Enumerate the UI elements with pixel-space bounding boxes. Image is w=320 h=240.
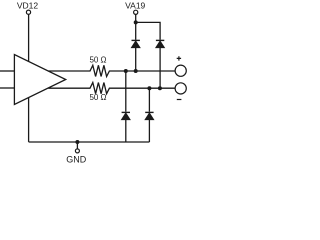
junction dot bottom wire / D4 [147, 86, 151, 90]
op-amp U1 [14, 55, 65, 105]
wire VD12 supply stem [28, 15, 30, 62]
wire amp ground stem [28, 97, 30, 141]
svg-text:GND: GND [66, 154, 87, 164]
diode D3 triangle [121, 113, 130, 120]
output terminal circle plus [175, 65, 186, 76]
wire bottom output with resistor R2 zigzag [48, 83, 175, 94]
wire diode D4 branch [148, 88, 150, 112]
svg-text:VD12: VD12 [17, 0, 39, 10]
terminal circle VD12 [26, 10, 30, 14]
minus sign [177, 99, 182, 101]
wire input top [0, 70, 14, 72]
wire GND rail [29, 141, 150, 143]
wire VA19 rail [136, 22, 160, 39]
wire diode D3 branch [125, 71, 127, 112]
junction dot top wire / D1 [134, 69, 138, 73]
terminal circle GND [75, 149, 79, 153]
diode D2 cathode bar [156, 39, 164, 41]
diode D4 cathode bar [145, 111, 153, 113]
wire input bottom [0, 87, 14, 89]
diode D3 cathode bar [122, 111, 130, 113]
diode D4 triangle [145, 113, 154, 120]
terminal circle VA19 [134, 10, 138, 14]
svg-text:50 Ω: 50 Ω [89, 93, 106, 102]
wire VA19 stem [135, 15, 137, 40]
svg-text:50 Ω: 50 Ω [89, 56, 106, 65]
wire diode D2 lead [159, 48, 161, 89]
wire top output with resistor R1 zigzag [48, 65, 175, 76]
wire diode D3 lead [125, 120, 127, 142]
diode D1 cathode bar [132, 39, 140, 41]
wire diode D1 lead [135, 48, 137, 71]
wire GND terminal stem [76, 142, 78, 149]
junction dot VA19 rail [134, 20, 138, 24]
output terminal circle minus [175, 83, 186, 94]
diode D2 triangle [156, 41, 165, 48]
junction dot GND rail [75, 140, 79, 144]
svg-text:VA19: VA19 [125, 1, 145, 11]
junction dot top wire / D3 [124, 69, 128, 73]
wire diode D4 lead [148, 120, 150, 142]
plus sign [177, 56, 181, 60]
junction dot bottom wire / D2 [158, 86, 162, 90]
diode D1 triangle [131, 41, 140, 48]
